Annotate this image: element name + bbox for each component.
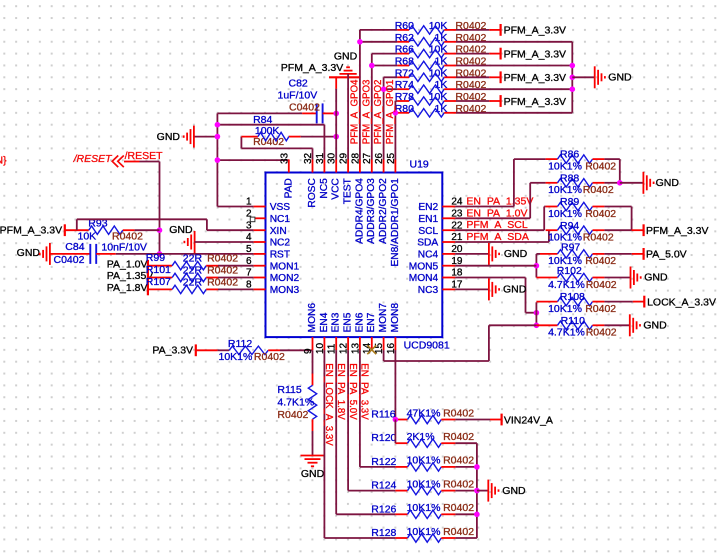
svg-text:9: 9 <box>303 348 314 354</box>
svg-text:GND: GND <box>502 485 526 497</box>
svg-text:4: 4 <box>246 232 252 243</box>
svg-text:R0402: R0402 <box>443 455 474 467</box>
svg-text:EN2: EN2 <box>418 202 438 213</box>
svg-text:NC1: NC1 <box>270 214 291 225</box>
svg-text:R128: R128 <box>371 527 396 539</box>
svg-text:ROSC: ROSC <box>307 178 318 207</box>
svg-text:R107: R107 <box>146 276 171 288</box>
svg-text:PFM_A_GPO2: PFM_A_GPO2 <box>373 80 384 145</box>
svg-text:PFM_A_3.3V: PFM_A_3.3V <box>646 225 708 237</box>
svg-text:23: 23 <box>451 209 463 220</box>
svg-text:10K1%: 10K1% <box>219 351 253 363</box>
svg-text:GND: GND <box>656 177 680 189</box>
svg-text:PFM_A_GPO4: PFM_A_GPO4 <box>350 79 361 144</box>
svg-text:VSS: VSS <box>270 202 291 213</box>
svg-text:EN1: EN1 <box>418 214 438 225</box>
svg-text:PFM_A_3.3V: PFM_A_3.3V <box>504 96 566 108</box>
svg-text:C0402: C0402 <box>54 254 85 266</box>
svg-text:NC2: NC2 <box>270 238 291 249</box>
svg-text:ADDR4/GPO4: ADDR4/GPO4 <box>354 178 365 244</box>
svg-text:14: 14 <box>362 342 373 354</box>
svg-text:18: 18 <box>451 268 463 279</box>
svg-text:6: 6 <box>246 256 252 267</box>
svg-text:PA_3.3V: PA_3.3V <box>152 345 193 357</box>
svg-text:VIN24V_A: VIN24V_A <box>504 414 553 426</box>
svg-text:R0402: R0402 <box>585 303 616 315</box>
svg-text:4.7K1%: 4.7K1% <box>277 397 314 409</box>
svg-text:R0402: R0402 <box>583 184 614 196</box>
svg-text:32: 32 <box>303 152 314 164</box>
svg-text:EN6: EN6 <box>354 312 365 332</box>
svg-text:R115: R115 <box>277 384 301 396</box>
svg-text:R102: R102 <box>557 265 582 277</box>
svg-text:4.7K1%: 4.7K1% <box>548 327 585 339</box>
svg-text:EN5: EN5 <box>343 312 354 332</box>
svg-text:PAD: PAD <box>283 178 294 198</box>
svg-text:GND: GND <box>643 320 667 332</box>
svg-text:C84: C84 <box>65 241 84 253</box>
svg-text:10K1%: 10K1% <box>548 184 582 196</box>
svg-text:/RESET: /RESET <box>125 150 164 162</box>
svg-text:MON8: MON8 <box>390 303 401 333</box>
svg-text:EN3: EN3 <box>331 312 342 332</box>
svg-text:R0402: R0402 <box>583 232 614 244</box>
svg-text:4.7K1%: 4.7K1% <box>548 279 585 291</box>
svg-text:10: 10 <box>315 342 326 354</box>
svg-text:MON5: MON5 <box>409 261 439 272</box>
svg-text:GND: GND <box>17 247 41 259</box>
svg-text:R0402: R0402 <box>585 208 616 220</box>
svg-text:22R: 22R <box>183 276 203 288</box>
svg-text:16: 16 <box>386 342 397 354</box>
svg-text:EN_PA_3.3V: EN_PA_3.3V <box>359 363 370 420</box>
svg-text:PFM_A_3.3V: PFM_A_3.3V <box>281 62 343 74</box>
svg-text:R88: R88 <box>560 172 579 184</box>
svg-text:8: 8 <box>246 280 252 291</box>
svg-text:GND: GND <box>334 50 358 62</box>
svg-text:VCC: VCC <box>331 178 342 200</box>
svg-text:R0402: R0402 <box>207 265 238 277</box>
svg-text:ADDR2/GPO2: ADDR2/GPO2 <box>378 178 389 244</box>
svg-text:7: 7 <box>246 268 252 279</box>
svg-text:LOCK_A_3.3V: LOCK_A_3.3V <box>647 296 716 308</box>
svg-text:R122: R122 <box>371 456 396 468</box>
svg-text:10K1%: 10K1% <box>548 160 582 172</box>
svg-text:R120: R120 <box>371 432 396 444</box>
svg-text:ADDR3/GPO3: ADDR3/GPO3 <box>366 178 377 244</box>
svg-text:PFM_A_3.3V: PFM_A_3.3V <box>504 72 566 84</box>
svg-text:26: 26 <box>374 152 385 164</box>
svg-text:R0402: R0402 <box>585 160 616 172</box>
svg-text:11: 11 <box>327 343 338 354</box>
svg-text:28: 28 <box>350 152 361 164</box>
svg-text:R0402: R0402 <box>207 276 238 288</box>
svg-text:R0402: R0402 <box>112 230 143 242</box>
svg-text:EN7: EN7 <box>366 312 377 332</box>
svg-text:R101: R101 <box>146 264 171 276</box>
svg-text:GND: GND <box>504 248 528 260</box>
svg-text:TEST: TEST <box>343 178 354 204</box>
svg-text:PFM_A_3.3V: PFM_A_3.3V <box>504 25 566 37</box>
svg-text:R124: R124 <box>371 480 396 492</box>
svg-text:MON6: MON6 <box>307 303 318 333</box>
svg-text:R108: R108 <box>560 291 585 303</box>
svg-text:10K1%: 10K1% <box>548 303 582 315</box>
svg-text:N}: N} <box>0 155 7 167</box>
svg-text:31: 31 <box>315 152 326 164</box>
svg-text:/RESET: /RESET <box>73 153 114 165</box>
svg-text:PFM_A_3.3V: PFM_A_3.3V <box>504 48 566 60</box>
svg-text:15: 15 <box>374 342 385 354</box>
svg-text:MON4: MON4 <box>409 273 439 284</box>
svg-text:EN_LOCK_A_3.3V: EN_LOCK_A_3.3V <box>323 363 334 446</box>
svg-text:EN_PA_5.0V: EN_PA_5.0V <box>347 363 358 420</box>
svg-text:SDA: SDA <box>417 238 438 249</box>
svg-text:EN8/ADDR1/GPO1: EN8/ADDR1/GPO1 <box>390 178 401 267</box>
svg-text:22R: 22R <box>183 265 203 277</box>
svg-text:R0402: R0402 <box>443 431 474 443</box>
svg-text:NC3: NC3 <box>418 285 439 296</box>
svg-text:PFM_A_GPO3: PFM_A_GPO3 <box>361 80 372 145</box>
svg-text:R0402: R0402 <box>277 409 308 421</box>
svg-text:R0402: R0402 <box>443 478 474 490</box>
svg-text:24: 24 <box>451 197 463 208</box>
svg-text:R89: R89 <box>560 196 579 208</box>
svg-text:R126: R126 <box>371 503 396 515</box>
svg-text:1: 1 <box>246 197 252 208</box>
svg-text:30: 30 <box>327 152 338 164</box>
svg-text:EN4: EN4 <box>319 312 330 332</box>
svg-text:R112: R112 <box>228 338 252 350</box>
svg-text:GND: GND <box>608 72 632 84</box>
svg-text:22: 22 <box>451 220 463 231</box>
svg-text:19: 19 <box>451 256 463 267</box>
svg-text:R0402: R0402 <box>254 351 285 363</box>
svg-text:C82: C82 <box>289 78 308 90</box>
svg-text:PFM_A_GPO1: PFM_A_GPO1 <box>385 80 396 145</box>
svg-text:XIN: XIN <box>270 226 287 237</box>
svg-text:20: 20 <box>451 244 463 255</box>
svg-text:PA_1.0V: PA_1.0V <box>107 258 148 270</box>
svg-text:33: 33 <box>279 152 290 164</box>
svg-text:MON3: MON3 <box>270 285 300 296</box>
svg-text:R0402: R0402 <box>253 136 284 148</box>
svg-text:NC4: NC4 <box>418 250 439 261</box>
svg-text:GND: GND <box>157 131 181 143</box>
svg-text:17: 17 <box>451 280 463 291</box>
svg-text:R110: R110 <box>561 315 585 327</box>
svg-text:R0402: R0402 <box>443 526 474 538</box>
svg-text:R0402: R0402 <box>443 502 474 514</box>
svg-text:NC5: NC5 <box>319 178 330 199</box>
svg-text:GND: GND <box>503 284 527 296</box>
svg-text:R97: R97 <box>561 242 580 254</box>
svg-text:GND: GND <box>301 468 325 480</box>
svg-text:R0402: R0402 <box>585 255 616 267</box>
svg-text:UCD9081: UCD9081 <box>404 340 450 352</box>
svg-text:PFM_A_3.3V: PFM_A_3.3V <box>0 225 62 237</box>
svg-text:R0402: R0402 <box>207 253 238 265</box>
svg-text:22R: 22R <box>183 253 203 265</box>
svg-text:U19: U19 <box>410 159 429 171</box>
svg-text:29: 29 <box>339 152 350 164</box>
svg-text:R0402: R0402 <box>586 327 617 339</box>
svg-text:21: 21 <box>451 232 463 243</box>
svg-text:12: 12 <box>339 342 350 354</box>
svg-text:R0402: R0402 <box>586 279 617 291</box>
svg-text:GND: GND <box>644 272 668 284</box>
svg-text:5: 5 <box>246 244 252 255</box>
svg-text:R99: R99 <box>146 252 165 264</box>
svg-text:MON2: MON2 <box>270 273 300 284</box>
svg-text:R0402: R0402 <box>443 407 474 419</box>
svg-text:13: 13 <box>350 342 361 354</box>
svg-text:MON7: MON7 <box>378 303 389 333</box>
svg-text:R86: R86 <box>560 149 579 161</box>
svg-text:27: 27 <box>362 152 373 164</box>
svg-text:1uF/10V: 1uF/10V <box>278 90 318 102</box>
svg-text:SCL: SCL <box>418 226 438 237</box>
svg-text:PA_5.0V: PA_5.0V <box>646 249 687 261</box>
svg-text:GND: GND <box>169 224 193 236</box>
svg-text:MON1: MON1 <box>270 261 300 272</box>
svg-text:10K1%: 10K1% <box>548 208 582 220</box>
svg-text:C0402: C0402 <box>289 102 320 114</box>
svg-text:EN_PA_1.8V: EN_PA_1.8V <box>335 363 346 420</box>
svg-text:R94: R94 <box>560 220 579 232</box>
svg-text:R116: R116 <box>371 409 395 421</box>
svg-text:PA_1.8V: PA_1.8V <box>107 282 148 294</box>
svg-text:10nF/10V: 10nF/10V <box>101 242 147 254</box>
svg-text:25: 25 <box>386 152 397 164</box>
svg-text:RST: RST <box>270 250 290 261</box>
